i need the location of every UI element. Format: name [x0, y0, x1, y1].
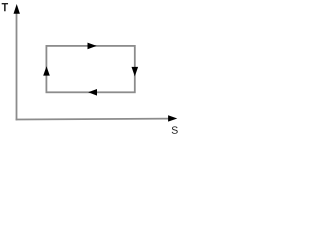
arrow up (left edge) — [43, 66, 50, 75]
arrow right (top edge) — [88, 43, 97, 50]
label S — [172, 126, 178, 133]
S axis (horizontal) — [16, 118, 171, 121]
S axis arrowhead — [168, 115, 177, 121]
T axis (vertical) — [16, 9, 18, 120]
T axis arrowhead — [14, 4, 20, 14]
cycle rectangle — [46, 46, 134, 92]
label T — [2, 3, 8, 11]
arrow down (right edge) — [132, 67, 139, 77]
arrow left (bottom edge) — [88, 89, 97, 96]
